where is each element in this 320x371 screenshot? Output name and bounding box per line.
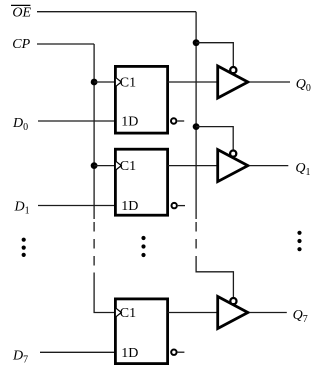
svg-text:1D: 1D — [121, 115, 138, 130]
tri-state buffer G1 — [218, 66, 248, 98]
node junction: CP to latch U1 — [91, 79, 98, 86]
latch U3 body — [115, 299, 167, 364]
buffer G2 enable bubble — [230, 151, 236, 157]
wire OE vertical bus (solid) — [195, 12, 197, 219]
wire OE branch to buffer G2 control — [196, 127, 233, 150]
svg-text:Q1: Q1 — [295, 161, 310, 178]
svg-text:1D: 1D — [121, 346, 138, 361]
wire latch U1 Q output to buffer G1 — [168, 81, 217, 83]
latch U1 inverted output bubble — [171, 118, 176, 123]
net label OE (active-low, overbar) — [11, 5, 32, 20]
wire D1 to latch U2 1D input — [38, 205, 115, 207]
wire latch U2 inverted output stub — [178, 205, 185, 207]
ellipsis: more Q outputs — [297, 231, 301, 252]
latch U2 body — [115, 149, 167, 215]
buffer G1 enable bubble — [230, 67, 236, 73]
node junction: OE branch to buffer G1 — [193, 39, 200, 46]
tri-state buffer G3 — [218, 297, 248, 329]
svg-text:CP: CP — [12, 37, 30, 52]
ellipsis: more D inputs — [22, 238, 26, 257]
svg-text:1D: 1D — [121, 199, 138, 214]
wire buffer G3 output — [249, 312, 286, 314]
wire buffer G2 output — [249, 165, 288, 167]
svg-text:Q7: Q7 — [293, 308, 308, 325]
wire buffer G1 output — [249, 81, 290, 83]
svg-text:OE: OE — [12, 5, 31, 20]
wire D0 to latch U1 1D input — [38, 120, 115, 122]
wire CP horizontal run — [37, 43, 94, 45]
latch U2 clock wedge (dynamic input symbol) — [116, 161, 121, 170]
svg-text:D0: D0 — [12, 116, 28, 133]
node junction: CP to latch U2 — [91, 162, 98, 169]
buffer G3 enable bubble — [230, 298, 236, 304]
wire OE horizontal run — [37, 11, 196, 13]
svg-text:C1: C1 — [120, 306, 136, 321]
wire CP stub into latch U1 C1 — [94, 81, 114, 83]
wire latch U3 inverted output stub — [178, 351, 185, 353]
ellipsis: more latches — [141, 236, 145, 257]
latch U3 inverted output bubble — [171, 350, 176, 355]
node junction: OE branch to buffer G2 — [193, 123, 200, 130]
svg-text:Q0: Q0 — [296, 77, 311, 94]
wire OE vertical bus (dashed continuation) — [195, 222, 197, 264]
wire CP to latch U3 C1 input (corner) — [94, 273, 114, 313]
latch U2 inverted output bubble — [172, 203, 177, 208]
latch U1 body — [115, 66, 167, 133]
wire latch U2 Q output to buffer G2 — [168, 165, 217, 167]
wire latch U3 Q output to buffer G3 — [168, 312, 217, 314]
latch U1 clock wedge (dynamic input symbol) — [116, 78, 121, 87]
wire OE branch to buffer G1 control — [196, 43, 233, 66]
latch U3 clock wedge (dynamic input symbol) — [116, 308, 121, 317]
svg-text:D1: D1 — [14, 200, 30, 217]
wire CP stub into latch U2 C1 — [94, 165, 114, 167]
tri-state buffer G2 — [218, 150, 248, 182]
wire OE to buffer G3 control (corner) — [196, 264, 233, 297]
wire CP vertical bus (dashed continuation) — [93, 222, 95, 267]
wire latch U1 inverted output stub — [177, 120, 184, 122]
svg-text:C1: C1 — [120, 75, 136, 90]
wire CP vertical bus (solid) — [93, 44, 95, 219]
svg-text:C1: C1 — [120, 159, 136, 174]
svg-text:D7: D7 — [12, 348, 28, 365]
wire D7 to latch U3 1D input — [40, 351, 115, 353]
